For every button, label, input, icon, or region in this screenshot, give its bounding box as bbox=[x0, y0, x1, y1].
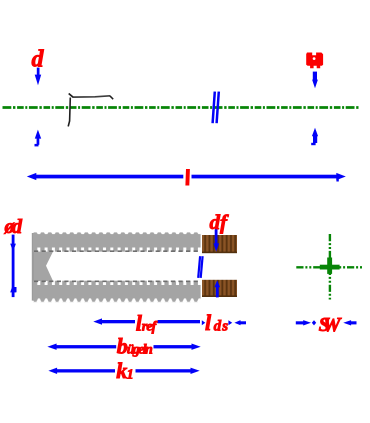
arrow d upper (blue, pointing down) bbox=[35, 68, 42, 86]
thread runout mark (blue double slant at rod/nut joint) bbox=[198, 256, 202, 278]
thread end mark (blue double slant at x~215) bbox=[213, 92, 219, 124]
dimension l (overall length, long blue arrow line) bbox=[27, 173, 346, 182]
arrow d lower (blue, pointing up) bbox=[35, 130, 42, 147]
label l (overall length) bbox=[185, 169, 190, 186]
threaded rod: chamfer cap bbox=[34, 252, 53, 281]
dimension row 1 (thread length) bbox=[93, 318, 205, 325]
svg-text:SW: SW bbox=[319, 314, 342, 336]
arrow M8 lower (blue, pointing up) bbox=[311, 128, 318, 145]
svg-text:df: df bbox=[210, 210, 230, 234]
root line upper (dashed gray) bbox=[34, 250, 200, 252]
dimension row 2 bbox=[47, 344, 200, 350]
svg-text:ügeln: ügeln bbox=[127, 343, 153, 358]
svg-text:l: l bbox=[205, 310, 212, 335]
centerline (green dash-dot, top view axis) bbox=[3, 106, 359, 109]
dimension row 3 bbox=[48, 368, 199, 374]
center mark (green crosshair, end view) bbox=[296, 234, 363, 300]
dimension SW (wrench size) bbox=[296, 320, 357, 325]
root line lower (dashed gray) bbox=[34, 280, 200, 282]
threaded rod: end face bbox=[32, 233, 35, 301]
svg-text:k: k bbox=[116, 358, 127, 383]
svg-text:ds: ds bbox=[214, 319, 229, 335]
svg-text:ref: ref bbox=[142, 319, 158, 334]
nut section upper block (brown hatched) bbox=[202, 235, 237, 253]
label M8 (right end designation) bbox=[306, 53, 323, 69]
arrow M8 upper (blue, pointing down) bbox=[312, 72, 318, 89]
arrow d1 upper (blue through top nut block, pointing down) bbox=[214, 229, 220, 251]
nut section lower block (brown hatched) bbox=[202, 280, 237, 297]
threaded rod: bottom thread band bbox=[33, 281, 201, 303]
svg-text:1: 1 bbox=[127, 367, 134, 382]
threaded rod: top thread band bbox=[33, 232, 201, 252]
callout leader (black, small thread mark) bbox=[68, 94, 113, 127]
dimension d3 vertical (blue) bbox=[10, 235, 16, 298]
arrow d1 lower (blue through bottom nut block, pointing up) bbox=[214, 280, 220, 297]
